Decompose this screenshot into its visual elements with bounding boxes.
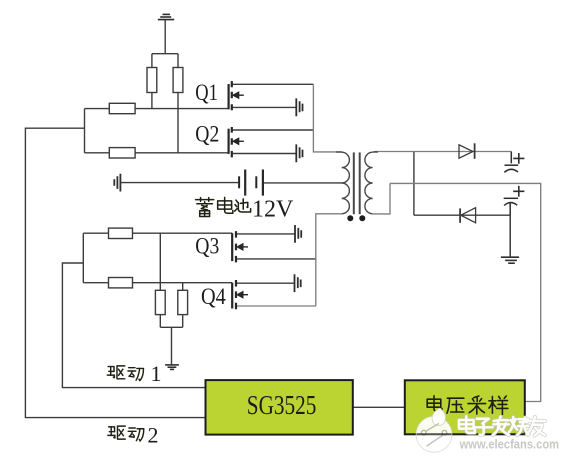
svg-text:Q1: Q1 (195, 80, 218, 106)
svg-text:SG3525: SG3525 (247, 389, 316, 420)
svg-text:12V: 12V (252, 196, 294, 222)
svg-text:Q4: Q4 (201, 284, 226, 310)
svg-text:1: 1 (151, 361, 162, 386)
svg-text:Q3: Q3 (195, 234, 219, 260)
svg-text:Q2: Q2 (195, 121, 219, 147)
svg-text:2: 2 (148, 422, 159, 447)
svg-text:www.elecfans.com: www.elecfans.com (459, 436, 559, 451)
